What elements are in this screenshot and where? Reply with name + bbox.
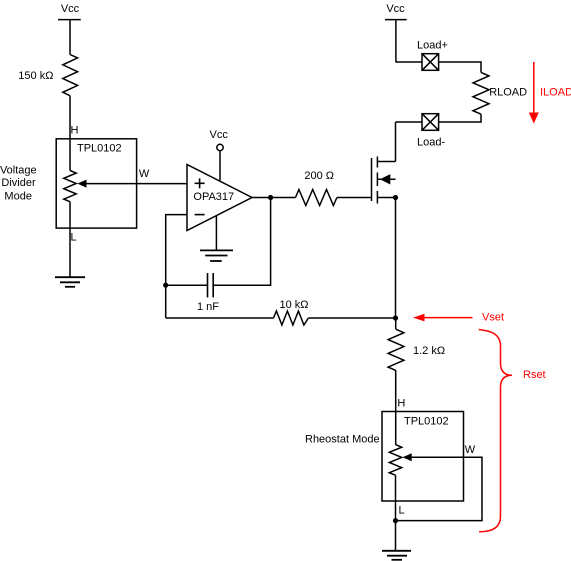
- box TPL0102 rheostat: [382, 412, 464, 502]
- svg-text:Voltage: Voltage: [0, 165, 37, 177]
- svg-text:Vcc: Vcc: [210, 129, 229, 141]
- op-amp + symbol: [195, 178, 205, 188]
- op-amp - symbol: [195, 214, 205, 216]
- svg-text:Divider: Divider: [1, 177, 36, 189]
- terminal Load-: [422, 114, 439, 131]
- svg-text:L: L: [399, 505, 405, 517]
- svg-text:200 Ω: 200 Ω: [304, 170, 334, 182]
- svg-text:H: H: [71, 125, 79, 137]
- wire RLOAD to Load-: [439, 114, 481, 122]
- svg-text:Mode: Mode: [4, 190, 32, 202]
- wire op-amp V- pin to ground: [215, 216, 217, 251]
- svg-text:H: H: [397, 398, 405, 410]
- svg-text:W: W: [465, 444, 476, 456]
- node feedback junction: [163, 283, 168, 288]
- wire Load- to drain: [396, 121, 423, 123]
- arrow ILOAD red: [529, 62, 539, 124]
- node Vset: [393, 315, 398, 320]
- resistor R3 10 kOhm: [274, 311, 309, 325]
- wire R4 to rheostat H: [395, 371, 397, 445]
- svg-text:TPL0102: TPL0102: [404, 416, 449, 428]
- box TPL0102 voltage divider: [56, 139, 136, 228]
- ground op-amp: [200, 250, 233, 261]
- wire W wiper right: [396, 457, 482, 520]
- wire source down to Vset: [395, 198, 397, 319]
- svg-text:150 kΩ: 150 kΩ: [18, 70, 53, 82]
- resistor R1 150 kOhm: [63, 55, 78, 96]
- svg-text:Load+: Load+: [417, 40, 448, 52]
- node source junction: [393, 195, 398, 200]
- wire gate: [337, 197, 372, 199]
- wire cap left: [166, 284, 208, 286]
- wiper arrow P1: [77, 180, 86, 188]
- potentiometer P2: [389, 445, 401, 476]
- capacitor C1 1 nF: [208, 273, 214, 297]
- svg-text:OPA317: OPA317: [193, 191, 234, 203]
- svg-text:ILOAD: ILOAD: [540, 87, 571, 99]
- wire op-amp output: [252, 197, 296, 199]
- wire inverting input feedback: [166, 215, 187, 318]
- wire cap right to output: [213, 198, 270, 286]
- potentiometer P1: [64, 171, 76, 202]
- wire 10k to Vset node: [308, 317, 395, 319]
- wire drain up: [395, 122, 397, 162]
- terminal Load+: [422, 54, 439, 71]
- arrow Vset red: [413, 314, 473, 322]
- ground bottom: [382, 551, 411, 560]
- wire W wiper to op-amp +: [86, 183, 187, 185]
- svg-text:Vcc: Vcc: [386, 3, 405, 15]
- node L junction: [393, 518, 398, 523]
- wire Vcc right down: [395, 20, 397, 62]
- svg-text:Vcc: Vcc: [61, 3, 80, 15]
- svg-text:W: W: [139, 168, 150, 180]
- wire to Load+ terminal: [396, 61, 423, 63]
- svg-text:Rheostat Mode: Rheostat Mode: [305, 434, 380, 446]
- svg-text:Load-: Load-: [417, 137, 445, 149]
- node output junction: [268, 195, 273, 200]
- svg-text:10 kΩ: 10 kΩ: [280, 299, 309, 311]
- resistor RLOAD: [473, 72, 489, 114]
- wire feedback bottom: [166, 317, 274, 319]
- wire R1 to potentiometer H: [69, 96, 71, 171]
- svg-text:L: L: [71, 232, 77, 244]
- wire Load+ to RLOAD: [439, 62, 481, 72]
- svg-text:Vset: Vset: [482, 312, 504, 324]
- svg-text:1.2 kΩ: 1.2 kΩ: [413, 345, 445, 357]
- label Voltage Divider Mode: [0, 165, 37, 203]
- wire P2 L to ground: [395, 475, 397, 551]
- svg-text:Rset: Rset: [523, 369, 546, 381]
- svg-text:RLOAD: RLOAD: [489, 87, 527, 99]
- svg-text:1 nF: 1 nF: [197, 301, 219, 313]
- ground left: [55, 277, 85, 287]
- power Vcc right: [385, 19, 407, 21]
- resistor R2 200 Ohm: [296, 190, 337, 206]
- svg-text:TPL0102: TPL0102: [77, 142, 122, 154]
- power Vcc left: [58, 19, 81, 21]
- transistor Q1 NMOS: [372, 157, 396, 204]
- wire Vcc to R1: [69, 20, 71, 55]
- wiper arrow P2: [403, 453, 412, 461]
- resistor R4 1.2 kOhm: [388, 318, 404, 371]
- brace Rset red: [479, 330, 512, 532]
- wire potentiometer L to ground: [69, 202, 71, 278]
- power Vcc op-amp pin: [217, 144, 223, 180]
- op-amp U1 OPA317: [187, 165, 252, 231]
